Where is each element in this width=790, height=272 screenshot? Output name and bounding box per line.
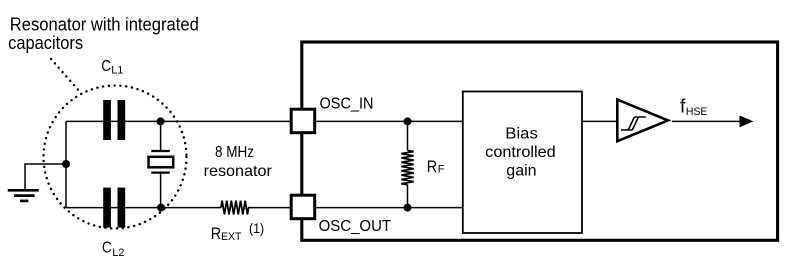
svg-text:OSC_IN: OSC_IN bbox=[320, 95, 374, 112]
wire: left vertical connecting CL1 and CL2 bbox=[65, 121, 67, 207]
svg-text:L1: L1 bbox=[111, 65, 123, 77]
wire: OSC_IN net (external) bbox=[66, 120, 291, 122]
wire: OSC_OUT net (external, left of REXT) bbox=[66, 207, 221, 209]
leader dotted line from annotation to resonator circle bbox=[51, 59, 81, 93]
pin OSC_OUT bbox=[291, 195, 315, 219]
svg-text:C: C bbox=[101, 58, 111, 75]
pin OSC_IN bbox=[291, 109, 315, 133]
svg-text:(1): (1) bbox=[249, 221, 264, 236]
wire: REXT to OSC_OUT pin bbox=[251, 207, 292, 209]
annotation: Resonator with integrated capacitors bbox=[8, 15, 199, 53]
svg-text:HSE: HSE bbox=[686, 106, 708, 118]
svg-text:OSC_OUT: OSC_OUT bbox=[319, 218, 392, 235]
chip boundary bbox=[302, 42, 778, 240]
block: Bias controlled gain bbox=[463, 92, 582, 234]
label: 8 MHz resonator bbox=[204, 144, 273, 180]
node: RF bottom junction bbox=[404, 204, 412, 212]
resonator boundary dotted circle bbox=[44, 86, 187, 229]
svg-text:resonator: resonator bbox=[204, 163, 273, 180]
svg-text:EXT: EXT bbox=[221, 231, 242, 243]
svg-text:C: C bbox=[102, 240, 112, 257]
svg-text:R: R bbox=[427, 158, 437, 176]
node: ground junction bbox=[62, 160, 70, 168]
node: bottom resonator junction bbox=[157, 204, 165, 212]
svg-text:gain: gain bbox=[506, 162, 536, 179]
hysteresis symbol bbox=[621, 117, 646, 130]
capacitor CL2 bbox=[103, 188, 125, 228]
svg-text:L2: L2 bbox=[112, 247, 124, 259]
wire: OSC_IN pin to bias block bbox=[316, 120, 463, 122]
op-amp / Schmitt buffer bbox=[617, 100, 668, 142]
node: top resonator junction bbox=[157, 117, 165, 125]
svg-text:F: F bbox=[438, 164, 445, 176]
svg-text:8 MHz: 8 MHz bbox=[215, 144, 254, 161]
arrowhead bbox=[740, 116, 754, 128]
ground bbox=[8, 164, 66, 201]
resistor RF (feedback) bbox=[401, 121, 413, 207]
svg-text:Bias: Bias bbox=[505, 126, 538, 143]
resistor REXT bbox=[221, 201, 251, 215]
svg-text:capacitors: capacitors bbox=[8, 33, 83, 53]
svg-text:controlled: controlled bbox=[485, 144, 556, 161]
wire: buffer output bbox=[672, 120, 741, 122]
node: RF top junction bbox=[404, 117, 412, 125]
wire: OSC_OUT pin to bias block bbox=[316, 207, 463, 209]
crystal resonator bbox=[149, 121, 174, 207]
wire: bias block to buffer bbox=[582, 120, 617, 122]
capacitor CL1 bbox=[103, 100, 125, 140]
svg-text:R: R bbox=[211, 225, 221, 243]
svg-text:Resonator with integrated: Resonator with integrated bbox=[10, 15, 199, 35]
